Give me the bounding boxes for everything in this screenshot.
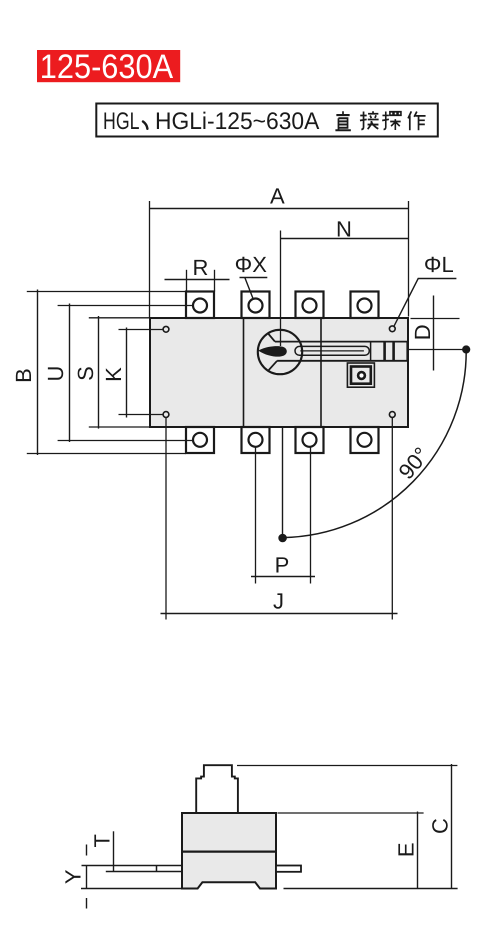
dimension J: [161, 417, 398, 619]
top terminal holes: [193, 299, 372, 313]
svg-text:U: U: [43, 366, 68, 382]
pivot dot bottom: [278, 534, 287, 543]
svg-text:J: J: [273, 589, 284, 614]
base reference line: [81, 888, 458, 890]
CJK char 接: [360, 111, 379, 129]
handle bar slot midline: [300, 350, 364, 352]
svg-text:ΦX: ΦX: [235, 252, 268, 277]
switch body: [150, 318, 408, 427]
svg-text:90°: 90°: [393, 442, 434, 484]
CJK comma 、: [143, 122, 147, 129]
dimension K: [119, 328, 164, 418]
left terminal blade: [82, 866, 183, 872]
title box HGL/HGLi direct operation: [96, 104, 438, 137]
bottom terminal tabs: [186, 427, 379, 453]
dimension C: [237, 764, 457, 889]
side body with DIN rail notch: [182, 813, 276, 889]
pivot radius line 0deg: [409, 349, 463, 351]
svg-text:N: N: [336, 217, 352, 242]
pole divider right: [320, 318, 322, 427]
svg-text:S: S: [73, 366, 98, 381]
dimension N: [281, 231, 409, 347]
dimension P: [251, 447, 315, 584]
knob pointer: [258, 346, 287, 357]
pole divider left: [243, 318, 245, 427]
knob grip cuts: [268, 333, 277, 370]
dimension A: [150, 201, 409, 318]
dimension B: [27, 290, 187, 456]
svg-text:D: D: [410, 324, 435, 340]
svg-text:E: E: [393, 842, 418, 857]
CJK char 操: [382, 111, 401, 130]
svg-text:125-630A: 125-630A: [40, 48, 174, 86]
svg-text:Y: Y: [61, 869, 86, 884]
svg-text:B: B: [11, 368, 36, 383]
top terminal tabs: [186, 292, 379, 319]
svg-text:P: P: [275, 553, 290, 578]
dimension U: [58, 304, 194, 443]
svg-text:C: C: [427, 818, 452, 834]
svg-text:T: T: [89, 834, 114, 847]
CJK char 作: [408, 111, 425, 130]
handle bar end cap: [406, 341, 408, 361]
side body divider: [182, 850, 276, 852]
svg-text:HGL: HGL: [103, 108, 140, 135]
mounting holes (corners): [163, 326, 395, 418]
handle bar dividers: [370, 342, 372, 361]
auxiliary interlock square: [347, 363, 374, 387]
svg-text:A: A: [270, 184, 285, 209]
handle bar slot: [295, 346, 369, 355]
dimension D: [411, 296, 460, 371]
CJK char 直: [335, 111, 350, 130]
handle bar: [275, 342, 408, 361]
bottom terminal holes: [193, 433, 372, 447]
pivot dot right: [462, 345, 470, 353]
dimension S: [89, 316, 150, 429]
dimension E: [278, 812, 424, 889]
rotary knob: [258, 330, 302, 374]
svg-text:ΦL: ΦL: [424, 252, 454, 277]
dimension T: [113, 831, 115, 872]
side knob shaft: [196, 765, 238, 813]
red model badge 125-630A: [37, 48, 180, 86]
dimension Y: [86, 866, 88, 889]
radius line 90deg: [282, 428, 284, 538]
svg-text:K: K: [101, 367, 126, 382]
dashed centerline: [86, 845, 88, 909]
svg-text:R: R: [193, 255, 209, 280]
right terminal blade: [276, 866, 301, 872]
dimension R: [165, 270, 230, 292]
90 degree rotation arc: [283, 350, 467, 538]
svg-text:HGLi-125~630A: HGLi-125~630A: [155, 108, 319, 135]
